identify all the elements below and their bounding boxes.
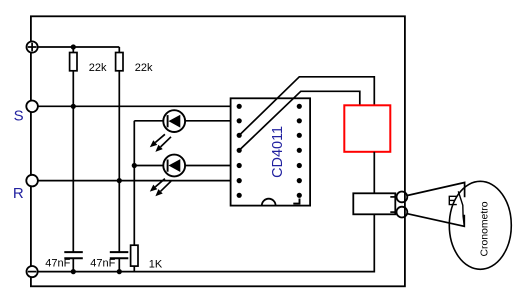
wire + rail <box>38 46 120 48</box>
wire diagonal pin3 to top <box>239 77 374 136</box>
wire red box to relay box <box>373 152 375 194</box>
junction dots <box>71 44 137 274</box>
node +rail/R1 <box>71 44 76 49</box>
node LED2/1K <box>132 163 137 168</box>
svg-text:47nF: 47nF <box>45 257 70 269</box>
svg-text:Cronometro: Cronometro <box>480 201 491 256</box>
wire LED column vertical <box>133 121 135 246</box>
terminal + <box>26 41 37 52</box>
wire R to IC pin <box>38 180 239 182</box>
svg-text:1K: 1K <box>149 258 163 270</box>
IC pin 1 marker <box>293 199 300 205</box>
svg-text:CD4011: CD4011 <box>269 126 286 178</box>
node R/R2 <box>117 178 122 183</box>
IC pins left column <box>237 104 242 198</box>
border frame of circuit board <box>31 16 405 286</box>
node S/R1 <box>71 104 76 109</box>
wire S to IC pin <box>38 105 239 107</box>
red component box <box>344 105 390 152</box>
capacitor C1 47nF <box>64 252 83 271</box>
IC pins right column <box>297 104 302 198</box>
connector circle upper <box>397 192 408 203</box>
node minus/C2 <box>117 269 122 274</box>
connector stub upper <box>390 196 396 198</box>
LED D1 <box>134 110 239 152</box>
horn bottom line <box>407 214 464 227</box>
capacitor C2 47nF <box>110 252 129 271</box>
node minus/C1 <box>71 269 76 274</box>
svg-text:22k: 22k <box>135 62 153 74</box>
terminal - <box>26 266 37 277</box>
connector stub lower <box>390 211 396 213</box>
chronometer ellipse <box>449 181 511 269</box>
horn top line <box>407 183 464 198</box>
IC U1 CD4011 outline <box>231 98 310 205</box>
relay/output box <box>353 193 395 214</box>
svg-text:R: R <box>13 185 24 202</box>
IC notch <box>262 199 276 206</box>
LED D2 <box>134 155 239 197</box>
connector circle lower <box>397 207 408 218</box>
svg-text:22k: 22k <box>89 62 107 74</box>
resistor R2 22k <box>116 47 123 252</box>
terminal R <box>26 175 38 187</box>
jack plug body <box>458 191 464 226</box>
resistor 1K <box>131 245 138 271</box>
jack socket E symbol <box>449 196 457 204</box>
resistor R1 22k <box>70 47 77 252</box>
wire relay box to minus rail <box>38 214 375 271</box>
terminal S <box>26 101 38 113</box>
svg-text:S: S <box>14 108 24 125</box>
wire diagonal pin4 to red box <box>239 91 360 150</box>
svg-text:47nF: 47nF <box>90 257 115 269</box>
